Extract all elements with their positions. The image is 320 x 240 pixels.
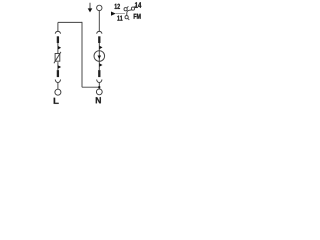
label 14	[135, 2, 141, 8]
FM contact 11 common	[125, 16, 128, 19]
plug-in disconnect pin (N branch, bottom)	[98, 70, 100, 77]
wire L-branch top drop	[57, 22, 59, 31]
plug-in disconnect socket (N branch, bottom)	[97, 80, 102, 83]
label FM	[134, 14, 141, 19]
wire pin to varistor	[57, 43, 59, 53]
label N	[96, 97, 101, 103]
plug-in disconnect socket (L branch, bottom)	[55, 80, 60, 83]
varistor	[55, 54, 60, 62]
terminal PE circle (top of N branch)	[97, 5, 102, 10]
earth direction arrow	[89, 3, 91, 9]
terminal N circle	[96, 89, 102, 95]
label L	[54, 98, 59, 104]
FM contact actuator arrow	[111, 12, 116, 16]
wire spark gap to pin	[98, 61, 100, 70]
thermal disconnect flag (above spark gap)	[99, 46, 102, 50]
thermal disconnect flag (above varistor)	[58, 46, 61, 50]
wire elbow horizontal to N node	[82, 86, 99, 88]
FM contact 12	[124, 8, 127, 11]
plug-in disconnect pin (L branch, bottom)	[57, 70, 59, 77]
label 11	[117, 16, 122, 21]
wire pin to spark gap	[98, 43, 100, 51]
wire varistor to pin	[57, 62, 59, 70]
FM contact 14	[131, 7, 134, 10]
wire PE terminal to socket	[98, 11, 100, 32]
terminal L circle	[55, 89, 61, 95]
wire socket to L terminal	[57, 83, 59, 90]
spark gap	[94, 51, 105, 62]
plug-in disconnect socket (L branch, top)	[55, 31, 60, 33]
thermal disconnect flag (below spark gap)	[99, 63, 102, 67]
plug-in disconnect socket (N branch, top)	[97, 31, 102, 33]
plug-in disconnect pin (N branch, top)	[98, 36, 100, 43]
wire elbow vertical	[81, 22, 83, 87]
label 12	[115, 4, 120, 9]
plug-in disconnect pin (L branch, top)	[57, 36, 59, 43]
thermal disconnect flag (below varistor)	[58, 65, 61, 69]
FM contact actuator link wire	[116, 13, 125, 15]
wire socket to N terminal	[98, 83, 100, 90]
FM contact lever	[127, 10, 132, 16]
wire top rail	[58, 21, 82, 23]
node junction at N	[98, 86, 100, 88]
